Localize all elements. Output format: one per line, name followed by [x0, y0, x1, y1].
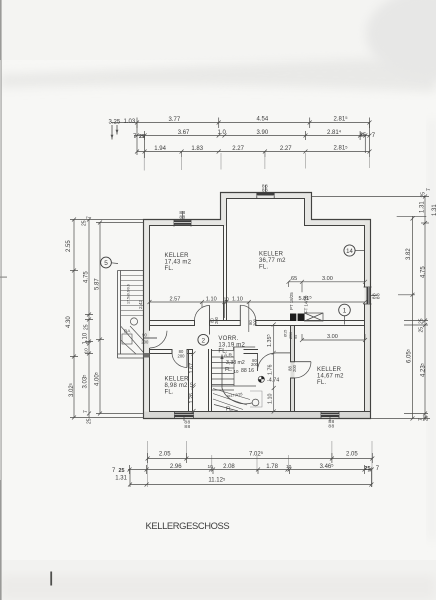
stair walk circle	[252, 399, 259, 406]
svg-text:3.90: 3.90	[257, 130, 269, 136]
scan mark left middle	[0, 277, 7, 278]
svg-text:90: 90	[142, 333, 147, 338]
interior dim line y302	[148, 300, 368, 332]
svg-text:2.08: 2.08	[223, 464, 235, 470]
svg-text:3,33 m2: 3,33 m2	[226, 360, 245, 366]
svg-text:95: 95	[294, 335, 298, 339]
svg-text:3.77: 3.77	[169, 117, 181, 123]
svg-text:88: 88	[328, 423, 334, 429]
window label right wall	[371, 293, 381, 299]
door AR label 80/200	[251, 358, 259, 367]
svg-text:25: 25	[421, 192, 427, 198]
svg-text:10: 10	[224, 296, 230, 302]
BA box	[122, 334, 132, 344]
svg-text:4.75: 4.75	[84, 271, 90, 283]
AR room west edge	[233, 347, 235, 386]
stair winders	[213, 389, 250, 412]
svg-text:3.25: 3.25	[109, 120, 121, 126]
svg-text:14,67 m2: 14,67 m2	[317, 374, 344, 380]
scan shading top streak	[0, 56, 436, 92]
door D1 label 80/200 rotated	[210, 316, 220, 324]
svg-text:1.67: 1.67	[189, 363, 195, 374]
svg-text:17,5x0,6/0,6: 17,5x0,6/0,6	[127, 284, 131, 304]
svg-text:2.96: 2.96	[170, 464, 182, 470]
svg-text:1: 1	[343, 308, 347, 315]
interior dim line y281.8	[287, 280, 368, 293]
room label keller 36,77	[259, 252, 286, 271]
door keller 8,98 arc	[172, 353, 187, 368]
window middle-top wall	[257, 185, 274, 199]
svg-text:14: 14	[346, 249, 353, 255]
svg-text:3.00: 3.00	[322, 276, 333, 282]
wall fill right	[365, 220, 371, 419]
svg-text:1.10: 1.10	[232, 296, 243, 302]
door keller 14,67 label 88/200 rotated	[288, 364, 298, 372]
interior wall H1 south of top kellers	[150, 321, 365, 326]
svg-text:1.94: 1.94	[154, 146, 166, 152]
svg-text:10: 10	[189, 382, 194, 388]
bottom dim row2 line	[128, 465, 374, 474]
svg-text:200: 200	[252, 318, 257, 326]
svg-text:25: 25	[82, 220, 88, 226]
window label bottom-left	[184, 420, 190, 430]
AR room top edge	[234, 347, 256, 351]
wall exterior inner face right	[364, 226, 366, 412]
svg-text:PT 18/25: PT 18/25	[289, 292, 294, 310]
stair walk line with arrow	[222, 355, 252, 404]
chimney flue PT black	[290, 314, 297, 322]
door exterior in left wall leaf	[144, 337, 157, 339]
svg-text:200: 200	[141, 340, 149, 345]
svg-text:1.26: 1.26	[189, 393, 195, 404]
position marker circle 1	[339, 304, 351, 324]
svg-text:25: 25	[87, 418, 93, 424]
svg-text:10: 10	[208, 464, 214, 470]
svg-text:25: 25	[419, 327, 425, 333]
door exterior arc	[150, 331, 167, 348]
right dim line A	[411, 216, 415, 420]
wall fill V3	[291, 326, 295, 412]
left dim line C	[96, 221, 104, 416]
svg-text:200: 200	[178, 354, 186, 359]
svg-text:2.05: 2.05	[346, 451, 358, 457]
svg-text:25: 25	[365, 466, 371, 472]
svg-text:3.67: 3.67	[178, 130, 190, 136]
svg-text:10: 10	[84, 348, 90, 354]
window bottom-left	[175, 411, 194, 421]
window label top-left	[179, 210, 185, 220]
svg-text:2: 2	[202, 337, 206, 344]
wall fill jog left	[221, 193, 227, 227]
window right wall	[364, 287, 378, 304]
scan dash bottom left	[50, 572, 52, 586]
svg-text:25: 25	[424, 415, 430, 421]
room label vorr 13,19	[218, 336, 245, 355]
svg-text:FL.: FL.	[165, 266, 174, 272]
top dim row2 line	[134, 131, 372, 140]
svg-text:1.83: 1.83	[191, 146, 203, 152]
right dim line B	[421, 195, 429, 421]
door keller 14,67 leaf	[295, 361, 312, 363]
wall exterior inner face bottom	[150, 411, 371, 413]
left dim line B	[85, 218, 93, 418]
wall exterior inner face top-left	[150, 225, 224, 227]
svg-text:10: 10	[234, 369, 239, 374]
svg-text:36,77 m2: 36,77 m2	[259, 258, 286, 264]
svg-text:88: 88	[262, 188, 268, 194]
svg-text:FL.: FL.	[225, 367, 233, 373]
svg-text:25: 25	[84, 324, 90, 330]
svg-text:KELLER: KELLER	[259, 252, 284, 258]
svg-text:7: 7	[83, 410, 89, 413]
wall fill middle-top	[220, 193, 312, 199]
room label keller 14,67	[317, 367, 344, 386]
top dim row1 line	[111, 118, 372, 129]
wall fill jog right	[305, 193, 312, 227]
chimney white joint	[296, 314, 297, 322]
door AR leaf	[257, 353, 259, 371]
wall fill top-left	[144, 220, 227, 226]
svg-text:2.27: 2.27	[232, 146, 244, 152]
svg-text:1.31: 1.31	[115, 476, 127, 482]
svg-text:25: 25	[139, 134, 145, 140]
svg-text:7: 7	[87, 216, 93, 219]
svg-text:5.87: 5.87	[95, 278, 101, 290]
svg-text:1.03: 1.03	[124, 119, 136, 125]
svg-text:88: 88	[184, 424, 190, 430]
partition wall V1 between top kellers	[224, 199, 227, 321]
svg-text:FL.: FL.	[226, 407, 234, 413]
scan left edge artifact	[0, 0, 2, 600]
stair middle line	[212, 385, 256, 387]
left dim line A	[70, 218, 78, 420]
svg-text:4.54: 4.54	[257, 117, 269, 123]
scan shading right mid	[428, 120, 436, 540]
svg-text:88 16: 88 16	[241, 368, 254, 374]
exterior stair rails	[118, 271, 144, 359]
rotated dim 1.10 east	[268, 388, 276, 414]
svg-text:1.10: 1.10	[83, 332, 89, 344]
door keller 14,67 arc	[295, 362, 312, 378]
door D2 label 80/200 rotated	[248, 318, 258, 326]
svg-text:FL.: FL.	[317, 380, 326, 386]
bottom dim row3 line	[128, 470, 373, 488]
stair steps	[212, 357, 234, 390]
wall exterior inner face left	[149, 226, 151, 412]
svg-text:KELLER: KELLER	[165, 253, 190, 259]
exterior stair circle	[130, 318, 137, 325]
rotated dim 1.35	[267, 323, 276, 355]
room label keller 8,98	[165, 377, 190, 396]
door exterior label 90/200	[141, 333, 149, 345]
svg-text:1.0: 1.0	[218, 130, 227, 136]
svg-text:10: 10	[286, 464, 292, 470]
svg-text:4.75: 4.75	[421, 266, 427, 278]
svg-text:FL.: FL.	[259, 265, 268, 271]
bottom dim row1 line	[146, 453, 375, 463]
svg-text:88: 88	[376, 293, 382, 299]
stairwell top edge	[212, 350, 234, 352]
svg-text:7: 7	[426, 188, 432, 191]
wall fill top-right	[305, 220, 371, 226]
scan shading bottom band	[0, 575, 436, 600]
svg-text:1.31: 1.31	[420, 201, 426, 213]
svg-text:3.82: 3.82	[406, 248, 412, 260]
interior wall H3 north of keller 8,98	[150, 350, 193, 354]
svg-text:2.42: 2.42	[138, 300, 143, 309]
svg-text:2.05: 2.05	[159, 452, 171, 458]
svg-text:8,98 m2: 8,98 m2	[165, 383, 189, 389]
corridor wall V4	[189, 350, 193, 412]
svg-text:17,43 m2: 17,43 m2	[165, 259, 192, 265]
window label middle-top	[262, 183, 268, 193]
top dim row3 line	[135, 123, 372, 159]
landing rect at stair foot	[250, 391, 262, 407]
wall stub east of stair	[244, 350, 258, 354]
wall fill left	[144, 220, 150, 419]
svg-text:2.27: 2.27	[280, 146, 292, 152]
vent shaft hatched box	[305, 313, 324, 321]
door D1 keller 17,43 leaf and arc	[209, 305, 211, 334]
scan shading top right corner	[366, 0, 436, 80]
stairwell west wall	[209, 350, 212, 412]
svg-text:KELLER: KELLER	[317, 367, 342, 373]
left dim crossbars	[70, 220, 144, 418]
svg-text:.65: .65	[290, 276, 298, 282]
svg-text:-4.74: -4.74	[267, 377, 279, 383]
wall V3 west of keller 14,67	[291, 326, 295, 412]
svg-text:13,19 m2: 13,19 m2	[218, 342, 245, 348]
position marker circle 14	[344, 245, 365, 256]
svg-text:88: 88	[179, 215, 185, 221]
top dim arrows 3,25 1,03	[112, 125, 117, 140]
svg-text:1.78: 1.78	[266, 464, 278, 470]
rotated dim 1.76	[268, 353, 276, 390]
door keller 8,98 label 80/200	[178, 349, 186, 358]
corridor dim ticks	[192, 352, 196, 414]
interior dim line 3.00 keller 14,67	[300, 334, 367, 342]
exterior stair steps	[121, 276, 144, 316]
top extension lines to building	[144, 153, 369, 171]
wall exterior inner face middle-top	[227, 198, 305, 200]
svg-text:4.30: 4.30	[66, 316, 72, 328]
svg-text:1.76: 1.76	[268, 365, 274, 376]
svg-text:25: 25	[419, 318, 425, 324]
door D2 keller 36,77 leaf and arc	[239, 305, 241, 320]
svg-text:200: 200	[214, 316, 219, 324]
exterior stair bottom	[118, 354, 144, 358]
rotated dim 1.67 corridor	[189, 363, 195, 404]
svg-text:Ø15: Ø15	[284, 330, 288, 337]
svg-text:KELLER: KELLER	[165, 377, 190, 383]
svg-text:1.10: 1.10	[268, 394, 274, 405]
tiny texts near chimney	[284, 330, 298, 339]
svg-text:KELLERGESCHOSS: KELLERGESCHOSS	[146, 520, 230, 531]
door AR arc	[258, 353, 276, 371]
svg-text:VORR.: VORR.	[218, 336, 238, 342]
wall junction dark left	[144, 353, 150, 358]
svg-text:5: 5	[104, 260, 108, 267]
svg-text:FL.: FL.	[165, 390, 174, 396]
window label bottom-right	[328, 419, 334, 429]
svg-text:Ø50: Ø50	[289, 332, 293, 339]
bottom extension lines	[148, 441, 372, 487]
window bottom-right	[321, 411, 339, 421]
position marker circle 2	[198, 334, 209, 345]
svg-text:200: 200	[292, 364, 297, 372]
wall exterior outline outer face	[144, 193, 371, 419]
room label keller 17,43	[165, 253, 192, 272]
wall fill bottom	[144, 412, 371, 419]
svg-text:3.00: 3.00	[327, 334, 338, 340]
window top-left wall	[174, 211, 191, 227]
exterior stair diagonals	[121, 326, 143, 354]
svg-text:1.10: 1.10	[206, 296, 217, 302]
position marker circle 5	[101, 257, 118, 268]
elevation marker	[258, 376, 279, 383]
right dim crossbars	[312, 197, 431, 419]
svg-text:2.55: 2.55	[66, 240, 72, 252]
svg-text:1.31: 1.31	[432, 204, 436, 216]
svg-text:25: 25	[119, 468, 125, 474]
svg-text:FL.: FL.	[218, 349, 227, 355]
chimney flue FT black	[298, 314, 305, 322]
svg-text:BA: BA	[124, 329, 131, 335]
wall piece AR door to V3	[276, 352, 290, 354]
svg-text:200: 200	[251, 362, 259, 367]
wall exterior inner face top-right	[305, 199, 365, 226]
svg-text:2.57: 2.57	[170, 297, 181, 303]
